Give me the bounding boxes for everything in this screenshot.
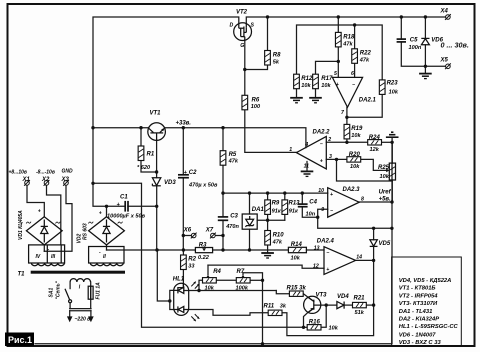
wire: VD6 stubs (424, 17, 426, 38)
wire: +33v rail (93, 127, 148, 129)
wire: C4 stubs and link to pin9 riser (301, 193, 303, 204)
svg-text:5k: 5k (273, 60, 280, 66)
capacitor C5 (397, 37, 422, 51)
wire: R7 wiper to node and down to bottom (243, 273, 263, 344)
svg-text:+33в.: +33в. (176, 121, 192, 127)
capacitor C1 (107, 195, 146, 220)
fuse FU1 (88, 282, 101, 300)
pot R4 (203, 269, 222, 292)
wire: R23 bottom to DA2.1 output (347, 92, 382, 117)
terminal X4 (440, 9, 451, 20)
svg-text:R22: R22 (360, 51, 372, 57)
svg-text:R18: R18 (343, 35, 355, 41)
op-amp DA2.2 (289, 130, 332, 170)
resistor R18 (335, 32, 355, 47)
svg-text:S: S (251, 23, 255, 29)
svg-text:C5: C5 (410, 37, 418, 43)
diode VD5 (370, 240, 391, 247)
ground under R10 (261, 253, 274, 258)
transistor VT3 (304, 293, 328, 314)
svg-text:3: 3 (329, 154, 332, 160)
svg-text:−: − (326, 250, 329, 256)
terminal X6 (183, 228, 197, 239)
shunt R3 (195, 242, 212, 260)
wire: pin3 drop to R25 bottom (337, 159, 393, 181)
wire: VD5 bottom stub (373, 247, 375, 260)
bridge VD2 (77, 211, 125, 256)
svg-text:III: III (51, 254, 56, 260)
label Uref (379, 189, 392, 202)
svg-text:X7: X7 (205, 228, 214, 234)
junction dot X5 line (424, 65, 427, 68)
svg-text:+: + (326, 267, 329, 273)
resistor R19 (344, 124, 363, 138)
wire: C1 right to VD3 line (128, 205, 157, 207)
svg-text:X3: X3 (61, 177, 70, 183)
pot R25 (378, 163, 396, 180)
svg-text:+5в.: +5в. (379, 196, 391, 202)
wire: VD5 top stub (373, 228, 375, 240)
wire: VD1 minus stub (43, 245, 45, 251)
svg-text:33: 33 (188, 264, 195, 270)
svg-text:VD1 КЦ405А: VD1 КЦ405А (18, 210, 24, 240)
transformer winding II box (89, 247, 124, 266)
svg-text:VT2: VT2 (236, 10, 248, 16)
svg-text:47k: 47k (272, 240, 283, 246)
wire: X7 terminal stub (215, 235, 223, 237)
wire: R22 stubs (354, 25, 356, 49)
svg-text:R7: R7 (237, 269, 245, 275)
junction dots reference line (221, 191, 319, 221)
svg-text:VT2 - IRFP054: VT2 - IRFP054 (399, 293, 438, 299)
wire: DA2.3 output to Uref node (359, 201, 392, 203)
svg-text:R9: R9 (272, 201, 280, 207)
svg-text:10k: 10k (350, 164, 360, 170)
svg-text:D: D (230, 23, 234, 29)
legend text (399, 278, 459, 346)
svg-text:10n: 10n (306, 212, 316, 218)
svg-text:* 620: * 620 (137, 165, 151, 171)
junction dots top rail (266, 15, 427, 18)
svg-text:DA2.4: DA2.4 (317, 239, 335, 245)
svg-text:DA1: DA1 (252, 207, 265, 213)
svg-text:10: 10 (318, 188, 324, 194)
svg-text:IV: IV (36, 254, 41, 260)
svg-text:HL1 - L-59SRSGC-CC: HL1 - L-59SRSGC-CC (399, 324, 459, 330)
diode VD4 (337, 294, 349, 309)
transistor VT2 (MOSFET) (230, 10, 255, 49)
svg-text:10k: 10k (301, 83, 311, 89)
wire: R9 stubs (267, 193, 269, 200)
svg-text:R25: R25 (378, 165, 390, 171)
ground up at R24 (386, 132, 399, 137)
capacitor C2 (178, 170, 218, 189)
svg-text:R1: R1 (147, 152, 155, 158)
svg-text:6: 6 (351, 71, 354, 77)
ground R12 (290, 98, 303, 103)
svg-text:VT3- КТ3107И: VT3- КТ3107И (399, 301, 438, 307)
resistor R9 (265, 200, 282, 215)
svg-text:R15 3k: R15 3k (287, 285, 307, 291)
wire: feedback top line y25 (297, 25, 383, 80)
svg-text:VT1: VT1 (150, 111, 162, 117)
junction dots bottom (168, 279, 264, 346)
svg-text:100n: 100n (409, 45, 422, 51)
svg-text:91к: 91к (289, 209, 299, 215)
wire: ground bus (107, 249, 196, 251)
wire: HL1 top led anode line (184, 290, 276, 292)
capacitor C3 (218, 214, 240, 231)
transistor VT1 (148, 111, 166, 141)
svg-text:−: − (352, 82, 355, 88)
svg-text:10k: 10k (380, 174, 390, 180)
wire: DA2.4 pin12 line to R4 wiper (208, 265, 324, 268)
svg-text:R11: R11 (264, 304, 275, 310)
junction dots bus (155, 234, 251, 252)
svg-text:R10: R10 (273, 233, 285, 239)
wire: C2 bottom to X6 node to bus (182, 178, 184, 250)
wire: R7 right to wiper node (250, 279, 262, 281)
svg-text:DA2.2: DA2.2 (313, 130, 331, 136)
svg-text:10k: 10k (389, 89, 399, 95)
svg-text:R24: R24 (369, 135, 381, 141)
svg-text:−: − (320, 141, 323, 147)
svg-text:FU1 1А: FU1 1А (96, 282, 102, 300)
resistor R14 (288, 242, 306, 262)
wire: DA1 top stub (249, 193, 251, 214)
wire: C5 stub from rail (400, 17, 402, 39)
svg-text:VD6 - 1N4007: VD6 - 1N4007 (399, 332, 437, 338)
wire: primary left lead and switch (69, 282, 71, 289)
svg-text:RS 603: RS 603 (83, 223, 89, 240)
resistor R11 (264, 304, 287, 316)
svg-text:X6: X6 (183, 228, 192, 234)
svg-text:R5: R5 (229, 152, 237, 158)
wire: R10 stubs (267, 220, 269, 230)
svg-text:14: 14 (356, 254, 362, 260)
svg-text:100k: 100k (236, 285, 249, 291)
ground R17 (309, 98, 322, 103)
wire: R4 wiper stem (207, 265, 209, 275)
wire: R1 top stub (140, 128, 142, 146)
svg-text:+: + (336, 82, 339, 88)
resistor R1 (137, 146, 155, 171)
resistor R10 (265, 231, 285, 246)
wire: R17 ground stub (315, 89, 317, 98)
diode VD6 (421, 38, 443, 45)
wire: VT3 collector to R15 (303, 294, 313, 302)
transformer primary winding I (70, 279, 90, 291)
op-amp DA2.3 (318, 187, 364, 217)
svg-text:0.22: 0.22 (198, 255, 210, 261)
wire: X2 down right side of VD1 (47, 185, 61, 245)
svg-text:R3: R3 (199, 242, 207, 248)
wire: reference line to DA1 R9 R13 C4 and DA2.3 pin10 (223, 192, 328, 194)
wire: R24 right to ground-up and R25 (382, 141, 393, 143)
svg-text:100: 100 (251, 104, 261, 110)
svg-text:10k: 10k (291, 256, 301, 262)
wire: X1 to bridge plus (27, 185, 44, 217)
IC DA1 (242, 207, 264, 229)
wire: DA2.1 output stub (346, 107, 348, 117)
resistor R6 (242, 95, 261, 110)
svg-text:Т1: Т1 (18, 272, 26, 278)
wire: DA1 ref to R9 R13 R10 node (257, 219, 285, 221)
resistor R13 (282, 200, 300, 215)
svg-text:+8...10в: +8...10в (9, 170, 27, 176)
svg-text:R16: R16 (309, 320, 321, 326)
resistor R8 (265, 51, 281, 66)
wire: DA1 bottom stub (249, 229, 251, 250)
svg-text:Uref: Uref (379, 189, 392, 195)
terminal X1 (9, 170, 31, 186)
wire: R25 stubs (391, 142, 393, 163)
svg-text:2: 2 (327, 137, 331, 143)
svg-text:G: G (240, 43, 244, 49)
wire: DA2.2 pin11 ground stub (306, 162, 308, 172)
wire: R17 riser to plus node (316, 61, 339, 74)
svg-text:10k: 10k (321, 83, 331, 89)
wire: VD2 minus to bus (106, 245, 108, 250)
svg-text:+: + (330, 192, 333, 198)
svg-text:47k: 47k (228, 159, 239, 165)
svg-text:C4: C4 (309, 200, 317, 206)
svg-text:12k: 12k (370, 147, 380, 153)
svg-text:X4: X4 (440, 9, 449, 15)
svg-text:VT1 - КТ801Б: VT1 - КТ801Б (399, 286, 436, 292)
wire: R18 stubs (337, 17, 339, 33)
svg-text:DA1 - TL431: DA1 - TL431 (399, 309, 433, 315)
wire: C3 bottom to X7 node to bus (222, 220, 224, 250)
wire: base to R16 riser (321, 305, 326, 327)
resistor R2 (181, 255, 197, 270)
svg-text:GND: GND (62, 169, 74, 175)
wire: R5 to C3 with tap to DA1 line (222, 165, 224, 217)
svg-text:−: − (330, 208, 333, 214)
svg-text:Рис.1: Рис.1 (8, 335, 32, 345)
wire: C2 branch from rail (182, 128, 184, 175)
wire: R8 top stub (267, 17, 269, 50)
svg-text:R2: R2 (188, 257, 196, 263)
svg-text:+: + (320, 159, 323, 165)
svg-text:VD3: VD3 (164, 180, 176, 186)
svg-text:R23: R23 (387, 80, 399, 86)
transformer secondary windings box (29, 245, 65, 266)
resistor R12 (294, 74, 313, 89)
wire: R1 bottom to VT1 base node (141, 161, 157, 173)
svg-text:-8...-10в: -8...-10в (36, 170, 55, 176)
svg-text:R20: R20 (349, 152, 361, 158)
transformer T1 core (18, 271, 126, 278)
wire: VT1 base to VD3 (156, 140, 158, 178)
pot R7 (236, 269, 251, 291)
wire: HL1 common cathode left (170, 290, 178, 309)
svg-text:R14: R14 (291, 242, 303, 248)
zener VD3 (152, 178, 176, 186)
svg-text:47k: 47k (342, 41, 353, 47)
svg-text:"Сеть": "Сеть" (56, 280, 62, 299)
svg-text:R19: R19 (351, 126, 363, 132)
svg-text:DA2 - KIA324P: DA2 - KIA324P (399, 317, 439, 323)
svg-text:4: 4 (304, 142, 308, 148)
wire: VD3 anode down to C1 line, and to ground bus (156, 186, 158, 250)
svg-text:10k: 10k (329, 325, 339, 331)
op-amp DA2.4 (313, 239, 362, 275)
resistor R24 (368, 135, 382, 153)
wire: raw+ vertical x93 down to C1 line (93, 128, 125, 207)
terminal X2 (36, 170, 55, 186)
svg-text:0 ... 30в.: 0 ... 30в. (441, 41, 469, 50)
resistor R20 (347, 152, 361, 170)
ground DA2.2 pin11 (301, 171, 314, 176)
wire: VT3 base line with VD4 R21 (314, 304, 337, 306)
wire: raw+ branch to bottom long line (VT3 emitter) (93, 183, 304, 327)
wire: R8 bottom to gate node (245, 66, 268, 70)
svg-text:+: + (38, 209, 41, 215)
wire: DA2.4 output to VD5 node (356, 259, 374, 261)
wire: X6 terminal stub (183, 235, 191, 237)
junction dot VT2 gate (243, 68, 246, 71)
terminal X7 (205, 228, 216, 239)
svg-text:10k: 10k (351, 133, 361, 139)
wire: mains cable double line (70, 308, 91, 310)
wire: primary right lead through fuse (90, 282, 92, 309)
svg-text:+: + (99, 211, 102, 217)
resistor R15 (287, 285, 307, 296)
switch SA1 (49, 280, 72, 302)
svg-text:DA2.1: DA2.1 (359, 98, 377, 104)
bridge VD1 (18, 209, 62, 253)
svg-text:R21: R21 (354, 296, 366, 302)
svg-text:51k: 51k (355, 310, 365, 316)
svg-text:R12: R12 (301, 76, 313, 82)
wire: R5 branch from rail (222, 128, 224, 151)
svg-text:HL1: HL1 (173, 277, 185, 283)
svg-text:R6: R6 (252, 98, 260, 104)
svg-text:1: 1 (289, 147, 292, 153)
svg-text:SA1: SA1 (49, 288, 55, 298)
svg-text:X1: X1 (22, 177, 31, 183)
wire: Uref vertical down and bottom return (35, 142, 392, 343)
figure label Рис.1 (5, 333, 34, 347)
svg-text:R4: R4 (213, 269, 221, 275)
wire: X5 ground stub (424, 66, 426, 73)
svg-text:13: 13 (314, 245, 320, 251)
resistor R23 (379, 80, 398, 95)
wire: X3 to center tap (44, 185, 72, 251)
capacitor C4 (298, 200, 318, 218)
wire: output node down past R21 to bottom loop and R11 (281, 260, 374, 335)
svg-text:10000µF x 50в: 10000µF x 50в (107, 214, 146, 220)
optocoupler HL1 (173, 277, 200, 322)
wire: R12 ground stub (296, 89, 298, 98)
wire: VT2 gate down through R6 to DA2.2 output (244, 40, 246, 95)
svg-text:5: 5 (334, 71, 337, 77)
legend box (392, 257, 462, 346)
wire: ground-up stub (391, 137, 393, 142)
wire: R4 R7 link (216, 279, 236, 281)
junction dots uref (302, 200, 394, 329)
svg-text:C2: C2 (189, 170, 197, 176)
wire: top rail left segment (drain side) (93, 17, 239, 128)
svg-text:X5: X5 (440, 58, 449, 64)
svg-text:8: 8 (361, 196, 364, 202)
wire: VD2 plus stub (106, 206, 108, 216)
svg-text:R17: R17 (321, 76, 333, 82)
svg-text:VD4, VD5 - КД522А: VD4, VD5 - КД522А (399, 278, 452, 284)
wire: VT3 emitter down (304, 308, 314, 327)
wire: R15 left lead with step to LED line (276, 291, 289, 294)
wire: R4 riser from LED line (199, 280, 203, 290)
terminal X5 (440, 58, 451, 70)
svg-text:47k: 47k (359, 57, 370, 63)
resistor R16 (307, 320, 339, 332)
resistor R21 (353, 296, 367, 316)
svg-text:~220 в: ~220 в (75, 316, 91, 322)
junction dots raw line (91, 170, 158, 208)
wire: top rail right segment (source to X4) (246, 17, 445, 24)
svg-text:X2: X2 (41, 177, 50, 183)
wire: DA2.2 pin2 line (326, 141, 367, 143)
svg-text:VD4: VD4 (337, 294, 349, 300)
wire: C5 bottom to X5 line (401, 42, 445, 66)
wire: DA2.2 pin3 line through R20 (326, 158, 347, 160)
wire: R19 stubs (346, 117, 348, 124)
svg-text:VD3 - BXZ C 33: VD3 - BXZ C 33 (399, 340, 442, 346)
wire: R16 left lead (304, 326, 308, 328)
junction dots +33 rail (91, 126, 224, 129)
svg-text:R8: R8 (273, 53, 281, 59)
op-amp DA2.1 (points down) (332, 71, 376, 116)
svg-text:C1: C1 (120, 195, 128, 201)
wire: R13 stubs (284, 193, 286, 200)
terminal X3 (61, 169, 74, 186)
resistor R17 (313, 74, 333, 89)
svg-text:VD5: VD5 (379, 241, 391, 247)
svg-text:VT3: VT3 (316, 293, 328, 299)
svg-text:C3: C3 (230, 214, 238, 220)
resistor R5 (220, 151, 239, 166)
svg-text:9: 9 (321, 207, 324, 213)
wire: HL1 bottom led line to R11 (184, 310, 268, 316)
junction dots feedback (335, 23, 394, 161)
wire: DA2.3 pin9 to feedback line (318, 209, 392, 228)
svg-text:11: 11 (304, 164, 309, 170)
svg-text:470n: 470n (225, 224, 239, 230)
svg-text:91к: 91к (272, 209, 282, 215)
wire: R2 stubs (182, 250, 184, 255)
svg-text:470µ x 50в: 470µ x 50в (188, 183, 218, 189)
svg-text:3k: 3k (280, 304, 287, 310)
svg-text:12: 12 (313, 264, 319, 270)
mains arrows (67, 311, 94, 323)
ground at X5 (419, 74, 432, 79)
resistor R22 (352, 49, 372, 64)
svg-text:10k: 10k (205, 285, 215, 291)
svg-text:DA2.3: DA2.3 (343, 187, 361, 193)
